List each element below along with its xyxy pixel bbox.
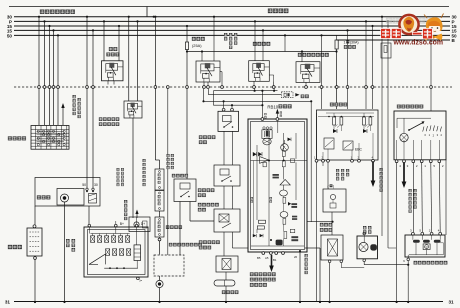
label: coolant fan motor bbox=[169, 243, 172, 246]
label: fuse tube bbox=[301, 95, 304, 98]
thermostat switch box bbox=[214, 209, 240, 232]
wire bus to fan switch bbox=[430, 25, 432, 27]
system bracket line bbox=[9, 6, 449, 8]
svg-text:50: 50 bbox=[7, 33, 13, 38]
wires low pressure to high pressure box bbox=[223, 131, 225, 165]
watermark red text weiku bbox=[381, 29, 391, 39]
A/C fan switch box bbox=[394, 111, 446, 160]
battery feed rail bbox=[35, 178, 100, 207]
label: recirculation solenoid bbox=[320, 223, 323, 226]
coolant fan resistor slim box bbox=[155, 217, 164, 237]
low pressure switch box bbox=[218, 111, 239, 131]
recirc solenoid pins bbox=[328, 260, 331, 263]
wire motor to bus31 bbox=[159, 288, 161, 302]
fan switch lamp bbox=[400, 133, 408, 141]
label: thermostat switch bbox=[198, 203, 201, 206]
wire controller to bus31 (x300) bbox=[299, 252, 301, 302]
coolant fan motor symbol bbox=[156, 280, 163, 287]
rail 1 from dashed to A/C area bbox=[203, 89, 205, 101]
label: protection device bbox=[253, 42, 257, 46]
rail 2 to controller top wire bbox=[213, 104, 262, 106]
wire bus30 down right bbox=[381, 16, 383, 18]
wire busP down right bbox=[387, 20, 389, 22]
wire blower ground right bbox=[363, 262, 365, 265]
svg-text:1: 1 bbox=[344, 41, 346, 45]
svg-text:): ) bbox=[333, 185, 334, 189]
svg-text:B5: B5 bbox=[257, 256, 261, 260]
wire arrow to door-lock control bbox=[62, 107, 64, 125]
fan switch internal drops bbox=[396, 140, 398, 160]
label: coolant fan high speed relay bbox=[99, 118, 102, 121]
label: heater relay bbox=[109, 47, 113, 51]
blower capacitor bbox=[370, 244, 377, 250]
relay R2 box bbox=[249, 61, 270, 82]
label: power & starting system bbox=[40, 10, 44, 14]
blower motor box bbox=[357, 236, 378, 259]
label: protection device 2 bbox=[222, 291, 225, 294]
low pressure switch top pins bbox=[222, 108, 225, 111]
wire controller to recirc solenoid bbox=[307, 221, 333, 223]
svg-text:EBC: EBC bbox=[355, 148, 363, 152]
connector below resistor bbox=[158, 238, 161, 241]
fuse 30A bbox=[335, 40, 338, 49]
label: A/C switch bbox=[330, 103, 334, 107]
bus 15a bbox=[14, 25, 450, 27]
wire solenoid to bus31 bbox=[329, 263, 331, 303]
label: to combination meter (vertical) bbox=[124, 200, 127, 203]
label: alternator (vertical) bbox=[66, 239, 70, 243]
fan switch corner wire bbox=[445, 160, 447, 235]
label: starter bbox=[37, 196, 41, 200]
fan switch arm bbox=[409, 123, 423, 131]
alternator bottom rail bbox=[104, 267, 138, 269]
label: to A/C control unit (vertical) bbox=[380, 168, 383, 171]
heater relay bottom stubs bbox=[107, 81, 109, 85]
svg-text:]=: ]= bbox=[140, 279, 143, 283]
label: A/C regulator (vertical) bbox=[305, 254, 308, 257]
resistor pack box bbox=[405, 235, 445, 257]
wire bus to dashed x222 bbox=[220, 71, 222, 73]
alternator rotor winding bbox=[134, 245, 141, 261]
connector dashed line bbox=[14, 86, 452, 88]
svg-text:B+: B+ bbox=[120, 222, 124, 226]
svg-text:31: 31 bbox=[449, 300, 455, 305]
recirculation solenoid box bbox=[321, 235, 343, 260]
wire bus30 down to relay stack bbox=[154, 17, 156, 160]
svg-text:26: 26 bbox=[294, 255, 298, 259]
fuse 25A bbox=[185, 42, 188, 50]
label: to ECU controller / AC low-pressure protection switch bbox=[250, 273, 254, 277]
wire bus50 to rail bbox=[284, 34, 286, 36]
bus 15b bbox=[14, 29, 450, 31]
heater relay feeds bbox=[103, 20, 105, 22]
svg-text:(25A): (25A) bbox=[192, 43, 202, 48]
controller output fat arrow bbox=[271, 255, 273, 267]
label: battery bbox=[8, 245, 12, 249]
label: coolant fan relay (vertical) bbox=[143, 159, 146, 162]
starter solenoid bbox=[89, 194, 97, 204]
rail A to controller pin bbox=[213, 90, 277, 92]
relay R3 box bbox=[296, 62, 320, 83]
wire controller right to bus31 (x320) bbox=[305, 247, 320, 249]
label: A/C blower (vertical) bbox=[363, 226, 366, 229]
svg-text:RB10: RB10 bbox=[267, 104, 278, 109]
wire fuse down to dashed bbox=[186, 52, 188, 86]
watermark logo circle bbox=[399, 15, 418, 34]
alternator diode bridge row1 bbox=[91, 236, 95, 243]
svg-text:D+: D+ bbox=[141, 222, 145, 226]
watermark ghost text bbox=[386, 18, 432, 24]
coolant fan relay slim box 2 bbox=[155, 191, 164, 212]
alternator terminals bbox=[88, 224, 91, 227]
bus 30 bbox=[14, 16, 450, 18]
watermark mascot bbox=[426, 17, 443, 31]
wires fan switch pins down bbox=[396, 163, 398, 302]
label: ignition switch bbox=[8, 137, 12, 141]
coolant fan motor dashed box bbox=[154, 255, 184, 276]
high pressure switch box bbox=[174, 179, 196, 202]
fuse tube dashed box bbox=[281, 92, 293, 98]
wire bus30 to indicator bbox=[128, 16, 130, 18]
controller top pins bbox=[261, 118, 264, 121]
fuse rail horizontal bbox=[187, 51, 337, 53]
wire A/C pin1 to bus31 bbox=[316, 162, 318, 302]
wire solenoid pin2 right bbox=[340, 263, 342, 268]
label: door lock & buzzer (vertical) bbox=[73, 95, 76, 98]
bus 50 bbox=[14, 34, 450, 36]
svg-text:31: 31 bbox=[5, 300, 11, 305]
heater relay box bbox=[102, 61, 124, 81]
resistor pack wires bbox=[412, 235, 414, 240]
alternator stator triangle bbox=[89, 254, 106, 264]
svg-text:B1: B1 bbox=[273, 258, 277, 262]
fan switch contacts bbox=[423, 127, 424, 132]
bus B bbox=[337, 39, 451, 41]
label: A/C fan switch bbox=[397, 105, 401, 109]
bus P bbox=[14, 20, 450, 22]
coolant fan relay slim box 1 bbox=[155, 169, 164, 190]
fan switch pins bbox=[395, 160, 398, 163]
relay R1 wires bbox=[201, 50, 203, 52]
clutch fuse pill bbox=[214, 280, 235, 286]
label: coolant fan relay second (vertical) bbox=[117, 168, 120, 171]
fat arrow to blower fuse bbox=[403, 163, 405, 183]
label: blower speed resistor bbox=[414, 261, 417, 264]
coolant fan high-speed relay box bbox=[124, 101, 142, 118]
resistor pack thermal fuse bbox=[423, 244, 430, 250]
A/C switch pins bbox=[315, 159, 318, 162]
svg-text:50: 50 bbox=[82, 183, 86, 187]
alternator ground terminal bbox=[137, 277, 140, 280]
resistor pack resistor pills bbox=[413, 240, 420, 243]
label: A/C compressor solenoid clutch bbox=[199, 241, 202, 244]
wire dashed to fan motor area x167.8 bbox=[166, 86, 169, 89]
wire bus15b to starter bbox=[92, 29, 94, 31]
A/C switch resistors bbox=[333, 117, 336, 125]
alternator diode bridge row2 bbox=[106, 249, 110, 256]
wire bus30 to starter bbox=[86, 16, 88, 18]
charge indicator box bbox=[129, 217, 150, 232]
wires between stack bbox=[159, 189, 161, 192]
A/C switch box bbox=[317, 110, 379, 160]
wire to high pressure switch bbox=[186, 88, 188, 179]
relay R2 wires bbox=[254, 20, 256, 22]
controller innards bbox=[263, 127, 265, 129]
wire bus15 to fuse bbox=[186, 25, 188, 27]
fan switch top wire bbox=[397, 117, 431, 119]
svg-text:30: 30 bbox=[94, 183, 98, 187]
RB10 controller outer box bbox=[248, 119, 307, 252]
wires thermo column bbox=[223, 186, 225, 209]
battery bbox=[27, 228, 42, 256]
label: A/C blower relay bbox=[298, 53, 302, 57]
blower motor pins bbox=[363, 259, 366, 262]
A/C switch contact blocks bbox=[324, 138, 334, 149]
arrow to combination meter bbox=[136, 213, 138, 219]
resistor pack pins bbox=[412, 232, 415, 235]
label: resistor bbox=[166, 226, 169, 229]
wire pin up-arrow bbox=[276, 112, 278, 118]
fat arrow to A/C control unit bbox=[372, 161, 374, 182]
label: condenser fan mid-speed relay (vertical) bbox=[224, 33, 227, 36]
label: high pressure protection switch bbox=[198, 189, 201, 192]
wires buses to A/C switch bbox=[346, 29, 348, 31]
compressor clutch box bbox=[216, 256, 238, 272]
wire clutch to bus31 bbox=[225, 286, 227, 302]
svg-text:A5: A5 bbox=[265, 256, 269, 260]
wire starter to bus31 bbox=[64, 202, 66, 302]
thermo (tiao) box bbox=[323, 189, 346, 212]
relay R3 wires bbox=[301, 52, 303, 62]
label: fuse 25A bbox=[192, 37, 196, 41]
rail B to fuse tube bbox=[207, 89, 209, 95]
label: condenser fan switch (vertical) bbox=[167, 154, 170, 157]
wire thermo to solenoid bbox=[331, 212, 333, 235]
wire relay to indicator bbox=[132, 118, 134, 218]
label: A/C system bbox=[268, 9, 272, 13]
label: to blower (vertical) bbox=[409, 189, 412, 192]
svg-text:(30A): (30A) bbox=[350, 41, 359, 45]
wire pack to bus31 bbox=[407, 255, 409, 258]
label: outside temp switch (vertical) bbox=[336, 169, 339, 172]
wire rail to battery bbox=[34, 206, 36, 225]
wires: buses to ignition switch bbox=[38, 16, 40, 18]
relay R1 box bbox=[196, 61, 220, 82]
wire rail to alternator B+ bbox=[88, 206, 90, 224]
A/C switch internal wires bbox=[333, 125, 335, 129]
bus 31 bottom bbox=[14, 301, 443, 303]
alternator box bbox=[84, 227, 148, 277]
wires below A/C switch bbox=[327, 162, 329, 189]
controller bottom pins bbox=[262, 252, 265, 255]
starter box bbox=[57, 189, 84, 206]
wire fuse30A down bbox=[336, 49, 338, 109]
label: high pressure switch bbox=[172, 174, 175, 177]
ignition switch box bbox=[31, 126, 69, 150]
wires alternator terminals up bbox=[115, 221, 117, 224]
A/C switch LEDs bbox=[333, 129, 337, 133]
wire battery to bus31 bbox=[34, 257, 37, 260]
svg-text:www.dzso.com: www.dzso.com bbox=[393, 39, 444, 46]
auxiliary fuse box bbox=[381, 43, 391, 58]
label: low pressure switch bbox=[199, 136, 202, 139]
high pressure protection switch box bbox=[214, 165, 240, 186]
starter motor circle bbox=[61, 194, 69, 202]
blower motor symbol bbox=[359, 242, 368, 251]
